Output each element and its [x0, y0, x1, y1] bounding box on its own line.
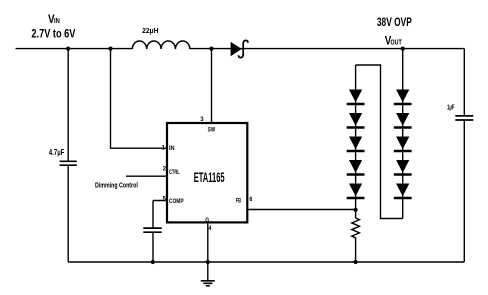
svg-text:3: 3: [200, 116, 204, 123]
svg-text:38V OVP: 38V OVP: [377, 15, 412, 29]
svg-text:4: 4: [209, 225, 212, 232]
svg-text:SW: SW: [208, 127, 216, 134]
svg-text:22µH: 22µH: [142, 26, 158, 35]
svg-text:IN: IN: [54, 16, 60, 25]
svg-text:1: 1: [162, 145, 166, 152]
svg-text:2: 2: [163, 165, 167, 172]
svg-text:6: 6: [249, 196, 252, 203]
svg-text:CTRL: CTRL: [169, 169, 180, 176]
svg-text:1µF: 1µF: [447, 103, 455, 112]
svg-text:G: G: [205, 217, 209, 224]
svg-text:IN: IN: [169, 145, 175, 152]
svg-text:2.7V to 6V: 2.7V to 6V: [31, 27, 75, 41]
svg-text:5: 5: [163, 195, 167, 202]
svg-text:Dimming Control: Dimming Control: [95, 182, 138, 189]
svg-text:OUT: OUT: [391, 37, 403, 46]
svg-text:4.7µF: 4.7µF: [49, 147, 64, 157]
svg-text:ETA1165: ETA1165: [194, 169, 225, 185]
svg-text:COMP: COMP: [169, 198, 184, 205]
svg-text:FB: FB: [236, 198, 242, 205]
